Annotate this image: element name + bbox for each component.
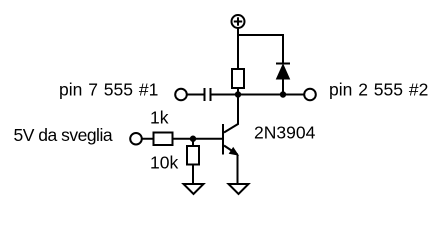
junction diode node xyxy=(280,91,286,97)
transistor Q1 base bar xyxy=(222,124,224,155)
transistor Q1 collector xyxy=(224,95,238,133)
power supply +V xyxy=(232,15,245,28)
junction base node xyxy=(190,136,196,142)
svg-text:10k: 10k xyxy=(150,153,178,173)
junction collector node xyxy=(235,91,241,97)
ground (emitter) xyxy=(229,184,249,194)
svg-text:pin 7 555 #1: pin 7 555 #1 xyxy=(59,80,158,100)
resistor R3 10k xyxy=(187,146,199,165)
transistor Q1 emitter with arrow xyxy=(224,146,238,156)
wire terminal to R2 xyxy=(142,138,154,140)
wire R2 to base xyxy=(173,138,223,140)
wire base node to R3 xyxy=(192,139,194,146)
wire terminal to capacitor C1 xyxy=(187,94,204,96)
wire R1 to collector node xyxy=(237,88,239,95)
wire D1 anode to node xyxy=(282,79,284,95)
ground (R3) xyxy=(184,184,204,194)
svg-text:5V da sveglia: 5V da sveglia xyxy=(14,125,113,145)
wire +V to R1 xyxy=(237,28,239,69)
capacitor C1 xyxy=(205,88,211,101)
diode D1 xyxy=(276,64,290,80)
svg-text:2N3904: 2N3904 xyxy=(254,123,316,143)
wire emitter to ground xyxy=(237,155,239,185)
wire C1 to terminal pin 2 xyxy=(212,94,305,96)
svg-text:pin 2 555 #2: pin 2 555 #2 xyxy=(329,80,428,100)
resistor R2 1k xyxy=(154,133,173,146)
resistor R1 pull-up xyxy=(232,69,244,88)
terminal pin 2 555 #2 xyxy=(304,89,316,101)
terminal 5V input xyxy=(130,133,142,145)
svg-text:1k: 1k xyxy=(150,108,169,128)
wire R3 to ground xyxy=(192,165,194,185)
wire +V branch to diode D1 xyxy=(238,35,283,63)
terminal pin 7 555 #1 xyxy=(175,89,187,101)
